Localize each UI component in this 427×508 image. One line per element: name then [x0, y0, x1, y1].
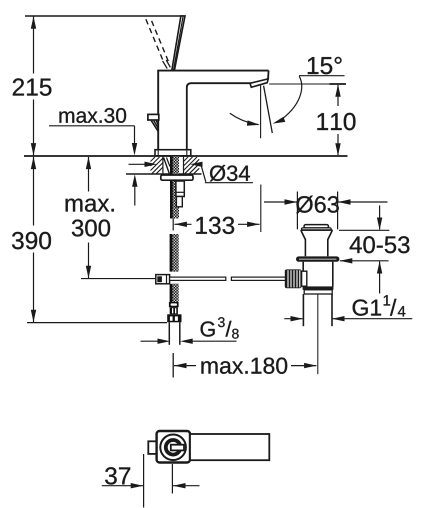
handle lever solid	[172, 16, 185, 70]
drain centerline	[317, 294, 319, 374]
top view body square	[157, 431, 190, 463]
drain body dark ring	[303, 286, 334, 289]
dimension diam 63	[296, 192, 298, 230]
label max300	[66, 199, 114, 237]
drain knurled knob	[285, 269, 302, 288]
pop-up rod left segment	[170, 277, 226, 280]
mounting nut	[176, 181, 184, 197]
pop-up rod right segment	[231, 277, 285, 280]
max30 lower arrow	[134, 186, 136, 206]
aerator reference line for 110	[269, 83, 345, 85]
label 40-53	[350, 236, 410, 253]
dimension max180	[172, 353, 174, 378]
countertop surface line	[24, 155, 348, 157]
dimension 390 line	[33, 157, 35, 226]
hose nut lower	[167, 314, 181, 322]
label 133	[196, 217, 234, 234]
top view handle neck	[171, 445, 184, 451]
label 110	[317, 113, 355, 130]
supply pipe G3/8	[168, 322, 170, 345]
counter hole edges	[162, 157, 164, 174]
label max30	[59, 108, 126, 123]
label 215	[13, 78, 52, 95]
dimension 37	[143, 454, 145, 508]
hose ferrule	[169, 302, 179, 307]
dimension 133	[172, 219, 174, 231]
supply hose upper	[170, 234, 179, 272]
counter hole hatch left	[151, 157, 163, 174]
top reference line	[25, 15, 183, 17]
side lever	[148, 114, 159, 120]
spout underside with inner radius	[187, 83, 251, 150]
threaded shank	[170, 156, 179, 218]
dimension 40-53	[339, 229, 389, 231]
label G3/8	[201, 317, 239, 338]
top view handle ring	[166, 440, 181, 455]
133 right extension line	[260, 185, 262, 233]
label max180	[201, 358, 287, 374]
label 390	[12, 232, 51, 249]
hose nut middle	[170, 307, 178, 314]
drain tailpipe	[302, 294, 304, 326]
max300 bottom reference line / rod reference	[81, 278, 156, 280]
countertop bottom line	[126, 173, 202, 175]
dimension G3/8	[141, 340, 160, 342]
label G1 1/4	[353, 295, 406, 316]
faucet body left edge	[157, 71, 159, 150]
base plate	[155, 150, 191, 156]
pop-up rod clevis	[156, 275, 170, 284]
dimension 215 line	[33, 16, 35, 74]
drain body	[302, 262, 304, 287]
drain body light ring	[304, 290, 332, 294]
supply hose lower	[170, 284, 179, 302]
label 37	[105, 467, 130, 484]
drain knob hub	[302, 271, 307, 286]
side lever shadow lines	[151, 121, 158, 132]
15 deg label underline	[299, 75, 345, 77]
angle arc left	[230, 113, 259, 124]
water stream 15 deg line	[264, 86, 273, 133]
counter hole hatch right	[184, 157, 200, 174]
label 15deg	[308, 57, 342, 74]
aerator slab	[250, 79, 268, 87]
dimension diam 34 leader	[129, 163, 147, 165]
dimension max300 line	[88, 157, 90, 192]
faucet body top edge	[157, 70, 268, 72]
dimension G1 1/4	[284, 318, 302, 320]
fixing screw	[164, 158, 170, 174]
label diam63	[296, 196, 339, 213]
390 bottom reference line	[27, 322, 167, 324]
label diam34	[210, 165, 250, 181]
mounting washer	[161, 175, 193, 180]
top view handle outer circle	[160, 435, 186, 461]
drain funnel flange	[301, 230, 333, 256]
handle lever alternate position dashed	[146, 19, 164, 62]
dimension 110	[337, 85, 339, 106]
water stream plumb line	[260, 86, 262, 139]
dimension max30 leader	[49, 125, 135, 127]
drain pop-up cap	[304, 225, 329, 228]
angle arc right	[278, 76, 302, 122]
spout tip right edge	[267, 71, 270, 80]
top view spout tab	[148, 441, 158, 454]
top view lever bar	[190, 434, 269, 460]
drain rubber washer	[296, 256, 339, 261]
